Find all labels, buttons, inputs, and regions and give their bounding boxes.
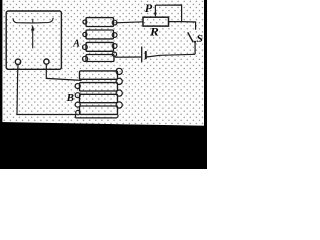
- svg-text:S: S: [196, 33, 203, 45]
- coil B right rings: [116, 68, 122, 108]
- coil B turn 2: [80, 83, 118, 91]
- galvanometer scale center tick: [32, 19, 34, 23]
- wire battery to coil A bottom: [115, 56, 141, 58]
- svg-text:B: B: [66, 92, 74, 104]
- wire rheostat right to switch top: [169, 22, 196, 30]
- rheostat R box: [143, 17, 169, 26]
- bottom black bar: [0, 122, 207, 169]
- svg-text:A: A: [72, 39, 80, 50]
- coil A turn 4: [86, 55, 114, 62]
- coil B turn 1: [80, 71, 118, 79]
- svg-text:P: P: [145, 3, 153, 15]
- galvanometer G body: [6, 11, 61, 69]
- coil B left rings: [75, 84, 80, 115]
- left border bar: [0, 0, 2, 124]
- switch S blade: [188, 32, 194, 42]
- wire right terminal to coil B upper lead: [46, 65, 81, 81]
- galvanometer terminal right: [44, 59, 49, 64]
- wire slider loop to switch branch: [155, 5, 181, 22]
- coil A turn 1: [86, 18, 114, 27]
- coil A right rings: [112, 20, 117, 56]
- wire bottom switch to battery: [147, 54, 196, 57]
- coil B turn 4: [80, 106, 118, 114]
- coil A turn 3: [86, 42, 114, 51]
- wire coil A to rheostat: [116, 22, 144, 23]
- right border bar: [204, 0, 207, 127]
- slider P arrow: [154, 5, 156, 13]
- wire left terminal down to bottom rail: [17, 65, 76, 118]
- galvanometer scale arc: [13, 18, 53, 23]
- coil A turn 2: [86, 30, 114, 39]
- switch pivot and bottom stub: [194, 41, 196, 43]
- galvanometer terminal left: [15, 59, 20, 64]
- coil B bottom lead line: [76, 114, 119, 118]
- svg-text:R: R: [149, 27, 159, 39]
- coil A left rings: [83, 20, 88, 62]
- battery short plate: [145, 51, 147, 59]
- battery long plate: [141, 47, 143, 63]
- galvanometer needle: [32, 28, 34, 48]
- coil B turn 3: [80, 94, 118, 102]
